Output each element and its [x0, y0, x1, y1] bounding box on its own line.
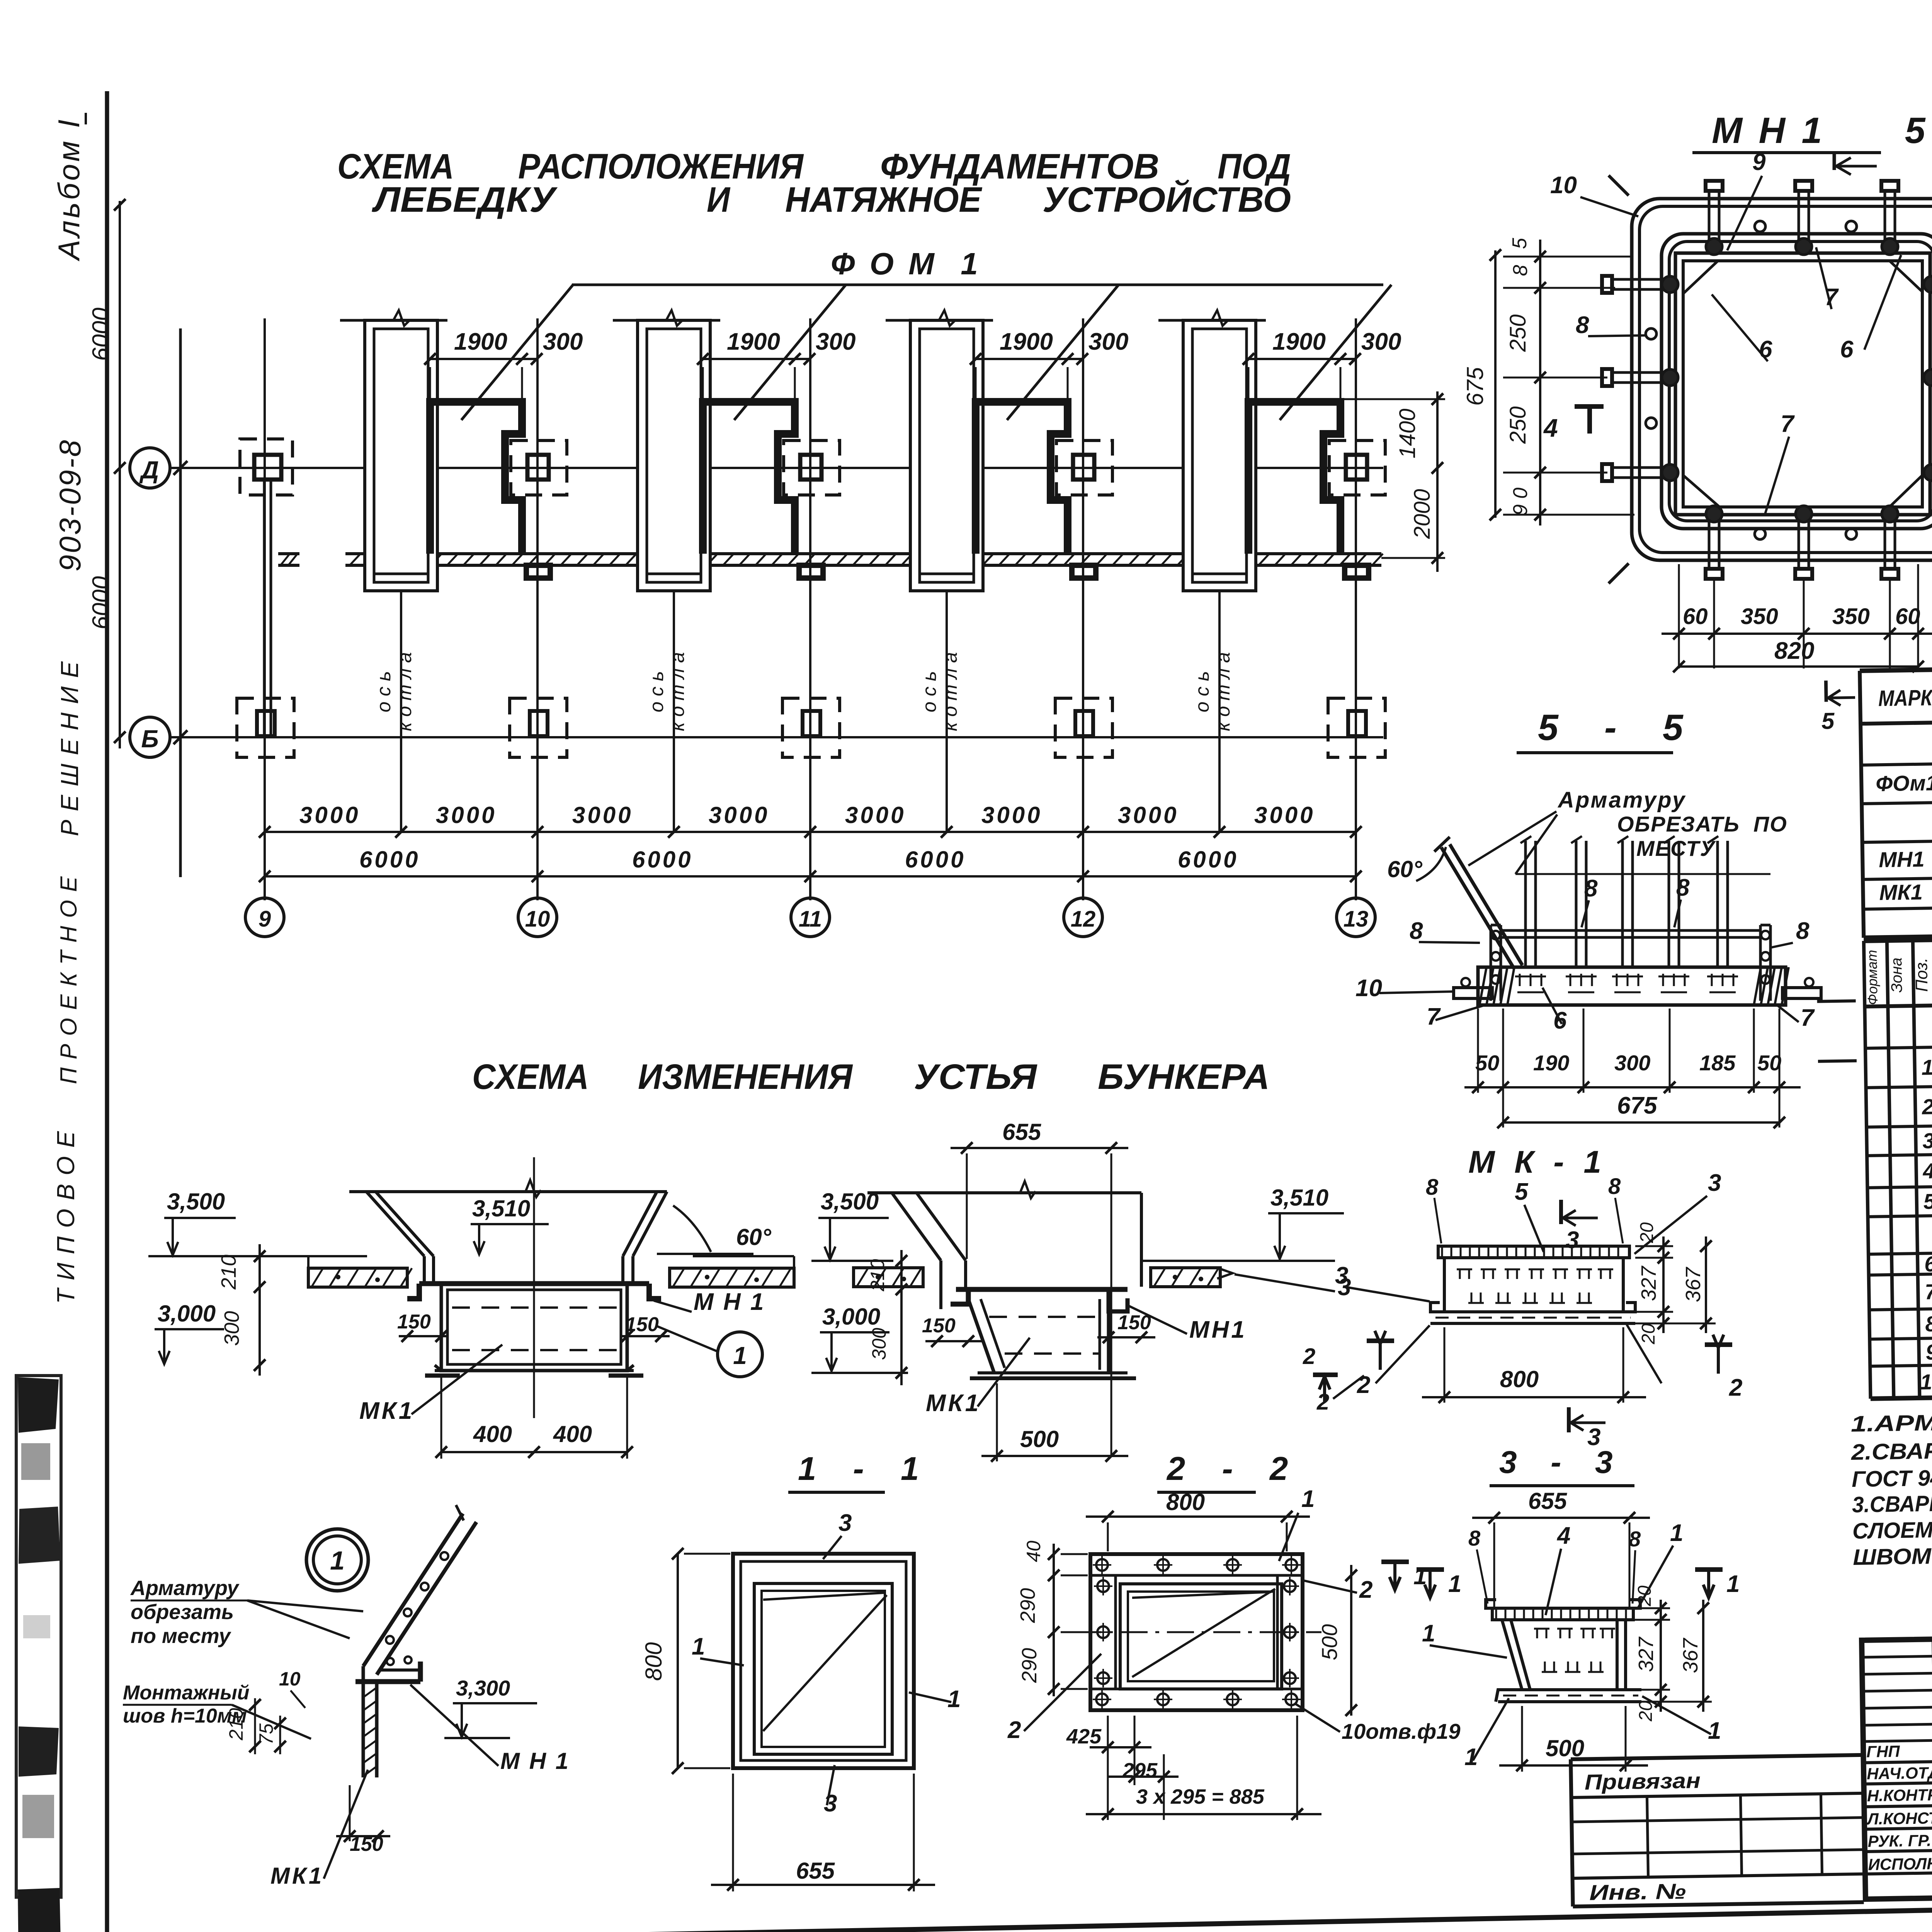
svg-text:НАТЯЖНОЕ: НАТЯЖНОЕ — [785, 180, 983, 219]
svg-text:20: 20 — [1636, 1701, 1656, 1722]
svg-text:Привязан: Привязан — [1584, 1768, 1701, 1794]
svg-text:7: 7 — [1781, 411, 1795, 437]
svg-text:6000: 6000 — [88, 308, 114, 361]
svg-text:1: 1 — [947, 1686, 961, 1713]
svg-text:20: 20 — [1638, 1323, 1659, 1345]
svg-text:МН1: МН1 — [1879, 847, 1925, 872]
svg-text:8: 8 — [1410, 918, 1423, 944]
svg-text:3000: 3000 — [436, 802, 497, 828]
svg-text:2: 2 — [1922, 1094, 1932, 1119]
svg-text:10: 10 — [1920, 1369, 1932, 1394]
svg-text:1: 1 — [1726, 1571, 1740, 1597]
svg-text:190: 190 — [1533, 1051, 1569, 1075]
svg-text:3,000: 3,000 — [158, 1301, 216, 1327]
svg-text:12: 12 — [1071, 906, 1096, 932]
svg-text:8: 8 — [1468, 1526, 1481, 1550]
svg-text:3 х 295 = 885: 3 х 295 = 885 — [1136, 1785, 1265, 1808]
svg-text:327: 327 — [1634, 1636, 1658, 1672]
svg-text:ГНП: ГНП — [1866, 1742, 1900, 1761]
svg-text:П Р О Е К Т Н О Е: П Р О Е К Т Н О Е — [56, 876, 82, 1084]
svg-text:3000: 3000 — [299, 802, 360, 828]
svg-text:1900: 1900 — [454, 328, 507, 355]
svg-text:3000: 3000 — [709, 802, 769, 828]
svg-text:М Н 1: М Н 1 — [500, 1748, 570, 1774]
svg-text:6000: 6000 — [88, 576, 114, 629]
svg-text:425: 425 — [1066, 1725, 1102, 1748]
svg-text:20: 20 — [1637, 1222, 1657, 1243]
svg-text:60: 60 — [1895, 604, 1920, 629]
svg-text:5 - 5: 5 - 5 — [1538, 707, 1687, 748]
svg-text:8: 8 — [1629, 1527, 1641, 1551]
svg-text:3: 3 — [1922, 1128, 1932, 1153]
svg-text:50: 50 — [1475, 1051, 1499, 1075]
svg-text:Инв. №: Инв. № — [1589, 1879, 1686, 1905]
svg-text:1: 1 — [330, 1546, 345, 1575]
svg-text:Ф О М 1: Ф О М 1 — [831, 247, 981, 281]
svg-text:675: 675 — [1462, 367, 1488, 406]
svg-text:50: 50 — [1757, 1051, 1781, 1075]
svg-text:6: 6 — [1840, 336, 1854, 363]
svg-text:Д: Д — [139, 456, 159, 484]
svg-text:ОБРЕЗАТЬ ПО: ОБРЕЗАТЬ ПО — [1617, 812, 1787, 836]
svg-text:250: 250 — [1505, 315, 1531, 352]
svg-text:СХЕМА: СХЕМА — [472, 1057, 589, 1097]
svg-text:2 - 2: 2 - 2 — [1166, 1451, 1294, 1487]
svg-text:290: 290 — [1016, 1588, 1039, 1623]
svg-text:7: 7 — [1427, 1003, 1441, 1030]
svg-text:1: 1 — [733, 1342, 747, 1369]
svg-text:675: 675 — [1617, 1092, 1658, 1119]
svg-text:МАРКА: МАРКА — [1878, 685, 1932, 711]
svg-text:800: 800 — [1500, 1366, 1539, 1392]
svg-text:800: 800 — [641, 1642, 667, 1681]
svg-text:6000: 6000 — [905, 847, 966, 872]
svg-text:300: 300 — [1614, 1051, 1650, 1075]
svg-text:3,300: 3,300 — [456, 1676, 510, 1700]
svg-text:367: 367 — [1682, 1267, 1705, 1302]
svg-text:1: 1 — [1448, 1571, 1461, 1597]
svg-text:Монтажный: Монтажный — [123, 1682, 250, 1704]
svg-text:ФОм1: ФОм1 — [1876, 770, 1932, 796]
svg-text:РАСПОЛОЖЕНИЯ: РАСПОЛОЖЕНИЯ — [518, 147, 804, 186]
svg-text:150: 150 — [922, 1315, 956, 1337]
svg-text:40: 40 — [1023, 1541, 1044, 1562]
svg-text:300: 300 — [1088, 328, 1128, 355]
svg-text:1: 1 — [1301, 1486, 1315, 1512]
svg-text:1: 1 — [1413, 1563, 1427, 1590]
svg-text:655: 655 — [1002, 1119, 1042, 1145]
svg-text:Арматуру: Арматуру — [1557, 787, 1686, 813]
svg-text:9: 9 — [259, 906, 271, 932]
svg-text:210: 210 — [217, 1255, 240, 1290]
svg-text:М Н 1: М Н 1 — [694, 1289, 765, 1315]
svg-text:3: 3 — [1708, 1170, 1721, 1196]
svg-text:о с ь: о с ь — [373, 671, 395, 713]
svg-text:к о т л а: к о т л а — [1212, 652, 1234, 731]
svg-text:3 - 3: 3 - 3 — [1499, 1445, 1618, 1480]
svg-text:6000: 6000 — [359, 847, 420, 872]
svg-text:3000: 3000 — [981, 802, 1042, 828]
svg-text:1: 1 — [1921, 1055, 1932, 1079]
svg-text:М Н 1 5: М Н 1 5 — [1712, 110, 1929, 151]
svg-text:350: 350 — [1741, 604, 1778, 629]
svg-text:ИЗМЕНЕНИЯ: ИЗМЕНЕНИЯ — [638, 1057, 853, 1097]
svg-text:Р Е Ш Е Н И Е: Р Е Ш Е Н И Е — [56, 661, 83, 836]
svg-text:10: 10 — [525, 906, 550, 932]
svg-text:МК1: МК1 — [1879, 880, 1923, 905]
svg-text:9 0: 9 0 — [1509, 488, 1532, 515]
svg-text:МЕСТУ: МЕСТУ — [1636, 836, 1716, 861]
svg-text:300: 300 — [220, 1311, 243, 1346]
svg-text:Зона: Зона — [1888, 957, 1905, 993]
svg-text:2: 2 — [1303, 1344, 1315, 1369]
svg-text:МК1: МК1 — [359, 1398, 414, 1424]
svg-text:о с ь: о с ь — [918, 671, 940, 713]
svg-text:к о т л а: к о т л а — [394, 652, 415, 731]
svg-text:обрезать: обрезать — [131, 1600, 234, 1624]
svg-text:3,510: 3,510 — [472, 1196, 530, 1221]
svg-text:о с ь: о с ь — [1191, 671, 1213, 713]
svg-text:4: 4 — [1543, 413, 1558, 442]
svg-text:БУНКЕРА: БУНКЕРА — [1098, 1057, 1270, 1097]
svg-text:295: 295 — [1122, 1759, 1158, 1782]
svg-text:1 - 1: 1 - 1 — [798, 1451, 925, 1487]
svg-text:6000: 6000 — [632, 847, 693, 872]
svg-text:8: 8 — [1576, 312, 1589, 338]
svg-text:5: 5 — [1821, 708, 1835, 734]
svg-text:8: 8 — [1796, 918, 1810, 944]
svg-text:к о т л а: к о т л а — [667, 652, 688, 731]
svg-text:5: 5 — [1509, 237, 1531, 249]
svg-text:60: 60 — [1683, 604, 1708, 629]
svg-text:о с ь: о с ь — [646, 671, 667, 713]
svg-text:МК1: МК1 — [270, 1863, 324, 1889]
svg-text:185: 185 — [1699, 1051, 1736, 1075]
svg-text:300: 300 — [816, 328, 855, 355]
svg-text:8: 8 — [1509, 265, 1532, 276]
svg-text:9: 9 — [1925, 1340, 1932, 1364]
svg-text:Поз.: Поз. — [1912, 957, 1931, 992]
svg-text:Б: Б — [141, 725, 158, 753]
svg-text:3: 3 — [1338, 1274, 1351, 1301]
svg-text:3000: 3000 — [572, 802, 633, 828]
svg-text:ИСПОЛН.: ИСПОЛН. — [1868, 1854, 1932, 1874]
svg-text:6000: 6000 — [1178, 847, 1238, 872]
svg-text:2000: 2000 — [1410, 489, 1435, 539]
svg-text:по месту: по месту — [131, 1624, 231, 1648]
svg-text:3: 3 — [838, 1510, 852, 1536]
svg-text:Альбом I: Альбом I — [52, 117, 86, 261]
svg-text:20: 20 — [1634, 1585, 1655, 1607]
svg-text:150: 150 — [625, 1313, 659, 1336]
svg-text:ЛЕБЕДКУ: ЛЕБЕДКУ — [372, 180, 558, 219]
svg-text:2: 2 — [1316, 1389, 1329, 1415]
svg-text:350: 350 — [1832, 604, 1870, 629]
svg-text:10: 10 — [1355, 975, 1382, 1002]
svg-text:6: 6 — [1924, 1252, 1932, 1276]
svg-text:655: 655 — [796, 1858, 835, 1884]
svg-text:367: 367 — [1679, 1638, 1702, 1673]
svg-text:7: 7 — [1801, 1005, 1815, 1031]
svg-text:3,000: 3,000 — [822, 1304, 880, 1330]
svg-text:327: 327 — [1637, 1265, 1660, 1301]
svg-text:2: 2 — [1007, 1717, 1021, 1743]
svg-text:Т И П О В О Е: Т И П О В О Е — [52, 1131, 80, 1304]
svg-text:3,500: 3,500 — [167, 1189, 225, 1214]
svg-text:3000: 3000 — [1254, 802, 1315, 828]
svg-text:МК1: МК1 — [926, 1390, 981, 1417]
svg-text:Формат: Формат — [1864, 950, 1881, 1005]
svg-text:5: 5 — [1515, 1179, 1529, 1205]
svg-text:300: 300 — [1361, 328, 1401, 355]
svg-text:8: 8 — [1608, 1174, 1621, 1199]
svg-text:3: 3 — [824, 1790, 837, 1817]
svg-text:2: 2 — [1359, 1577, 1372, 1603]
svg-text:5: 5 — [1923, 1189, 1932, 1213]
svg-text:1900: 1900 — [1000, 328, 1053, 355]
svg-text:10: 10 — [1550, 172, 1577, 199]
svg-text:1: 1 — [1422, 1620, 1435, 1647]
svg-text:8: 8 — [1584, 875, 1598, 902]
svg-text:1400: 1400 — [1395, 408, 1420, 458]
svg-text:13: 13 — [1344, 906, 1369, 932]
svg-text:3000: 3000 — [845, 802, 906, 828]
svg-text:250: 250 — [1505, 406, 1531, 444]
svg-text:МН1: МН1 — [1189, 1316, 1247, 1343]
svg-text:3,510: 3,510 — [1270, 1185, 1328, 1211]
svg-text:1: 1 — [1708, 1718, 1721, 1744]
svg-text:4: 4 — [1556, 1522, 1570, 1549]
svg-text:400: 400 — [553, 1421, 592, 1447]
svg-text:800: 800 — [1166, 1489, 1205, 1515]
svg-text:8: 8 — [1925, 1311, 1932, 1336]
svg-text:820: 820 — [1774, 638, 1814, 664]
svg-text:4: 4 — [1922, 1158, 1932, 1183]
svg-text:Л.КОНСТР.: Л.КОНСТР. — [1866, 1809, 1932, 1828]
svg-text:500: 500 — [1317, 1624, 1342, 1660]
svg-text:8: 8 — [1426, 1175, 1439, 1200]
svg-text:290: 290 — [1018, 1648, 1041, 1683]
svg-text:7: 7 — [1925, 1279, 1932, 1304]
svg-text:655: 655 — [1528, 1488, 1568, 1514]
svg-text:10отв.ф19: 10отв.ф19 — [1342, 1719, 1461, 1743]
svg-text:2: 2 — [1729, 1374, 1742, 1401]
svg-text:9: 9 — [1752, 149, 1766, 175]
svg-text:8: 8 — [1676, 874, 1690, 901]
svg-text:1: 1 — [692, 1633, 705, 1660]
svg-text:60°: 60° — [1387, 856, 1423, 882]
svg-text:400: 400 — [473, 1421, 512, 1447]
svg-text:1900: 1900 — [1272, 328, 1326, 355]
svg-text:11: 11 — [799, 906, 822, 932]
svg-text:Арматуру: Арматуру — [130, 1577, 240, 1600]
svg-text:УСТЬЯ: УСТЬЯ — [914, 1057, 1037, 1097]
svg-text:3,500: 3,500 — [821, 1189, 879, 1214]
svg-text:УСТРОЙСТВО: УСТРОЙСТВО — [1043, 179, 1291, 219]
svg-text:3000: 3000 — [1118, 802, 1179, 828]
svg-text:1900: 1900 — [727, 328, 780, 355]
svg-text:903-09-8: 903-09-8 — [53, 439, 87, 571]
svg-text:300: 300 — [868, 1328, 890, 1360]
svg-text:ШВОМ hш = 6мм: ШВОМ hш = 6мм — [1853, 1541, 1932, 1570]
svg-text:210: 210 — [225, 1708, 247, 1741]
svg-text:РУК. ГР.: РУК. ГР. — [1867, 1831, 1931, 1850]
svg-text:И: И — [707, 180, 731, 219]
svg-text:1: 1 — [1670, 1520, 1683, 1546]
svg-text:60°: 60° — [736, 1224, 772, 1250]
svg-text:к о т л а: к о т л а — [939, 652, 961, 731]
svg-text:10: 10 — [279, 1668, 301, 1690]
svg-text:300: 300 — [543, 328, 583, 355]
svg-text:Н.КОНТР.: Н.КОНТР. — [1867, 1786, 1932, 1805]
svg-text:НАЧ.ОТД.: НАЧ.ОТД. — [1867, 1764, 1932, 1783]
svg-text:150: 150 — [397, 1311, 431, 1333]
svg-text:210: 210 — [867, 1259, 888, 1292]
svg-text:М К - 1: М К - 1 — [1468, 1145, 1607, 1180]
svg-text:500: 500 — [1020, 1426, 1059, 1452]
